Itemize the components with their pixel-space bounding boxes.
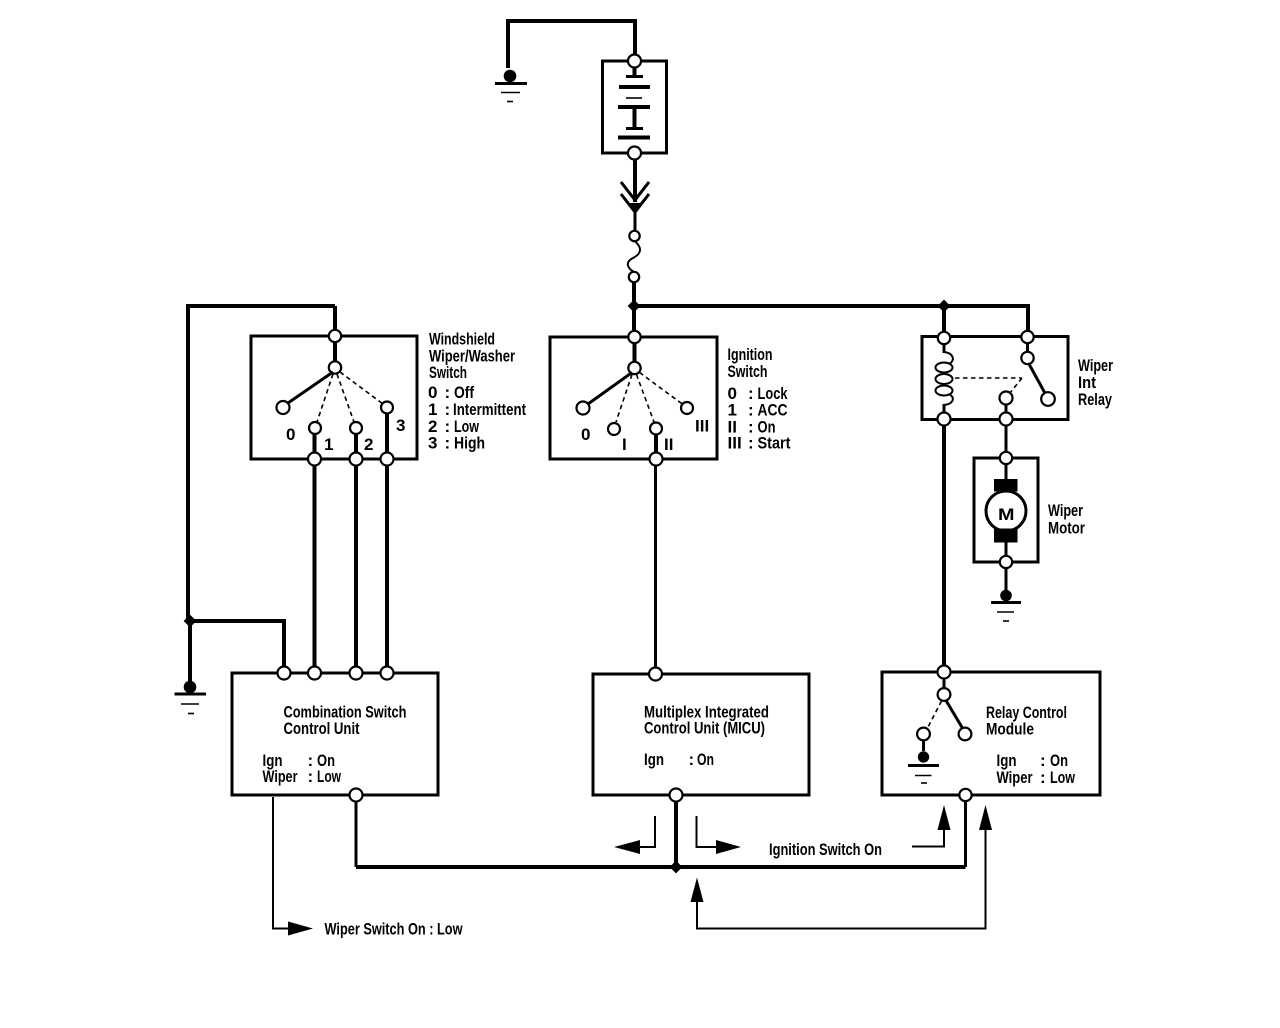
wire main bus [634, 304, 1028, 308]
relay control module [882, 666, 1100, 802]
svg-text:Relay: Relay [1078, 390, 1112, 409]
svg-text:Switch: Switch [728, 362, 768, 381]
svg-text:III: III [695, 417, 709, 436]
ground G2 [175, 681, 207, 714]
wire squiggle [628, 241, 640, 272]
wire ground drop [506, 19, 510, 68]
svg-text:High: High [454, 434, 485, 453]
label wiper int relay [1078, 356, 1113, 409]
svg-text:1: 1 [324, 435, 333, 454]
wire ignition switch to MICU [654, 465, 657, 669]
svg-text:II: II [664, 435, 673, 454]
svg-text::: : [748, 434, 754, 453]
wire bottom bus [356, 865, 966, 869]
junction bus relay tap [938, 300, 951, 313]
wire left branch horizontal [190, 304, 335, 308]
svg-text:3: 3 [396, 416, 405, 435]
wire into wiper switch [333, 306, 337, 333]
battery [603, 55, 667, 160]
wire battery top [633, 19, 637, 56]
wire relay coil to relay control module [942, 425, 946, 667]
ignition switch [550, 331, 717, 466]
svg-text:2: 2 [364, 435, 373, 454]
multiplex integrated control unit (MICU) [593, 668, 809, 802]
wire below battery [633, 160, 637, 202]
svg-text:Module: Module [986, 720, 1034, 739]
svg-text::: : [445, 434, 451, 453]
label windshield wiper/washer switch [428, 330, 526, 453]
wire [634, 212, 637, 231]
arrow up to bottom bus [691, 878, 704, 903]
wire MICU to bottom bus [674, 802, 678, 868]
junction bottom bus [670, 861, 683, 874]
relay coil [943, 344, 946, 353]
connector C2 [629, 272, 639, 282]
svg-text:On: On [697, 750, 714, 769]
svg-text::: : [308, 767, 314, 786]
svg-text:III: III [728, 434, 742, 453]
arrow wiper-switch-on from combination unit [273, 797, 313, 936]
label wiper motor [1048, 501, 1085, 538]
svg-text:Wiper: Wiper [263, 767, 298, 786]
label ignition switch [728, 345, 791, 453]
svg-text::: : [689, 750, 695, 769]
wiper int relay [922, 331, 1068, 426]
wire bus to ignition switch [632, 306, 636, 334]
svg-text:Control Unit (MICU): Control Unit (MICU) [644, 719, 765, 738]
svg-text:Switch: Switch [429, 363, 467, 382]
relay switch [1026, 343, 1029, 353]
svg-text:Wiper Switch On : Low: Wiper Switch On : Low [325, 920, 464, 939]
arrow right at MICU [697, 816, 742, 854]
wire to bus [632, 282, 636, 308]
wire bus corner to relay switch [1026, 304, 1030, 334]
svg-text::: : [1040, 768, 1046, 787]
svg-text:M: M [998, 505, 1015, 524]
svg-text:Ign: Ign [644, 750, 664, 769]
svg-text:Start: Start [758, 434, 791, 453]
arrow ignition-switch-on to relay module [912, 805, 951, 847]
svg-text:3: 3 [428, 434, 437, 453]
combination switch control unit [232, 667, 438, 802]
wire junction to ground [188, 621, 192, 681]
ground motor [991, 590, 1021, 621]
svg-text:Motor: Motor [1048, 519, 1085, 538]
svg-text:Low: Low [1050, 768, 1076, 787]
ground G1 [495, 70, 527, 102]
svg-text:Ignition Switch On: Ignition Switch On [769, 840, 882, 859]
wire battery ground top horizontal [508, 19, 635, 23]
svg-text:Low: Low [317, 767, 342, 786]
connector C1 [629, 231, 639, 241]
wire relay control module to bottom bus [964, 802, 967, 868]
wire branch to combination unit [190, 621, 284, 668]
svg-text:I: I [622, 435, 627, 454]
wire combination unit to bottom bus [355, 802, 358, 868]
wire bus to relay coil [942, 306, 946, 334]
svg-text:0: 0 [581, 425, 590, 444]
junction left ground branch [184, 615, 197, 628]
arrow up to relay module (right) [979, 805, 992, 830]
wire left branch vertical [186, 304, 190, 621]
wire relay to motor [1005, 425, 1008, 453]
svg-text:Wiper: Wiper [1048, 501, 1083, 520]
svg-text:Wiper: Wiper [997, 768, 1033, 787]
svg-text:Control Unit: Control Unit [284, 719, 360, 738]
arrow left at MICU [614, 816, 655, 854]
wiper motor [974, 452, 1038, 568]
junction main bus left [628, 300, 641, 313]
windshield wiper/washer switch [251, 330, 417, 466]
wire motor to ground [1005, 568, 1008, 590]
fuse (fusible link chevrons) [621, 182, 649, 214]
wire lower return path [697, 829, 986, 929]
svg-text:0: 0 [286, 425, 295, 444]
wires wiper switch to combination unit [313, 465, 317, 668]
